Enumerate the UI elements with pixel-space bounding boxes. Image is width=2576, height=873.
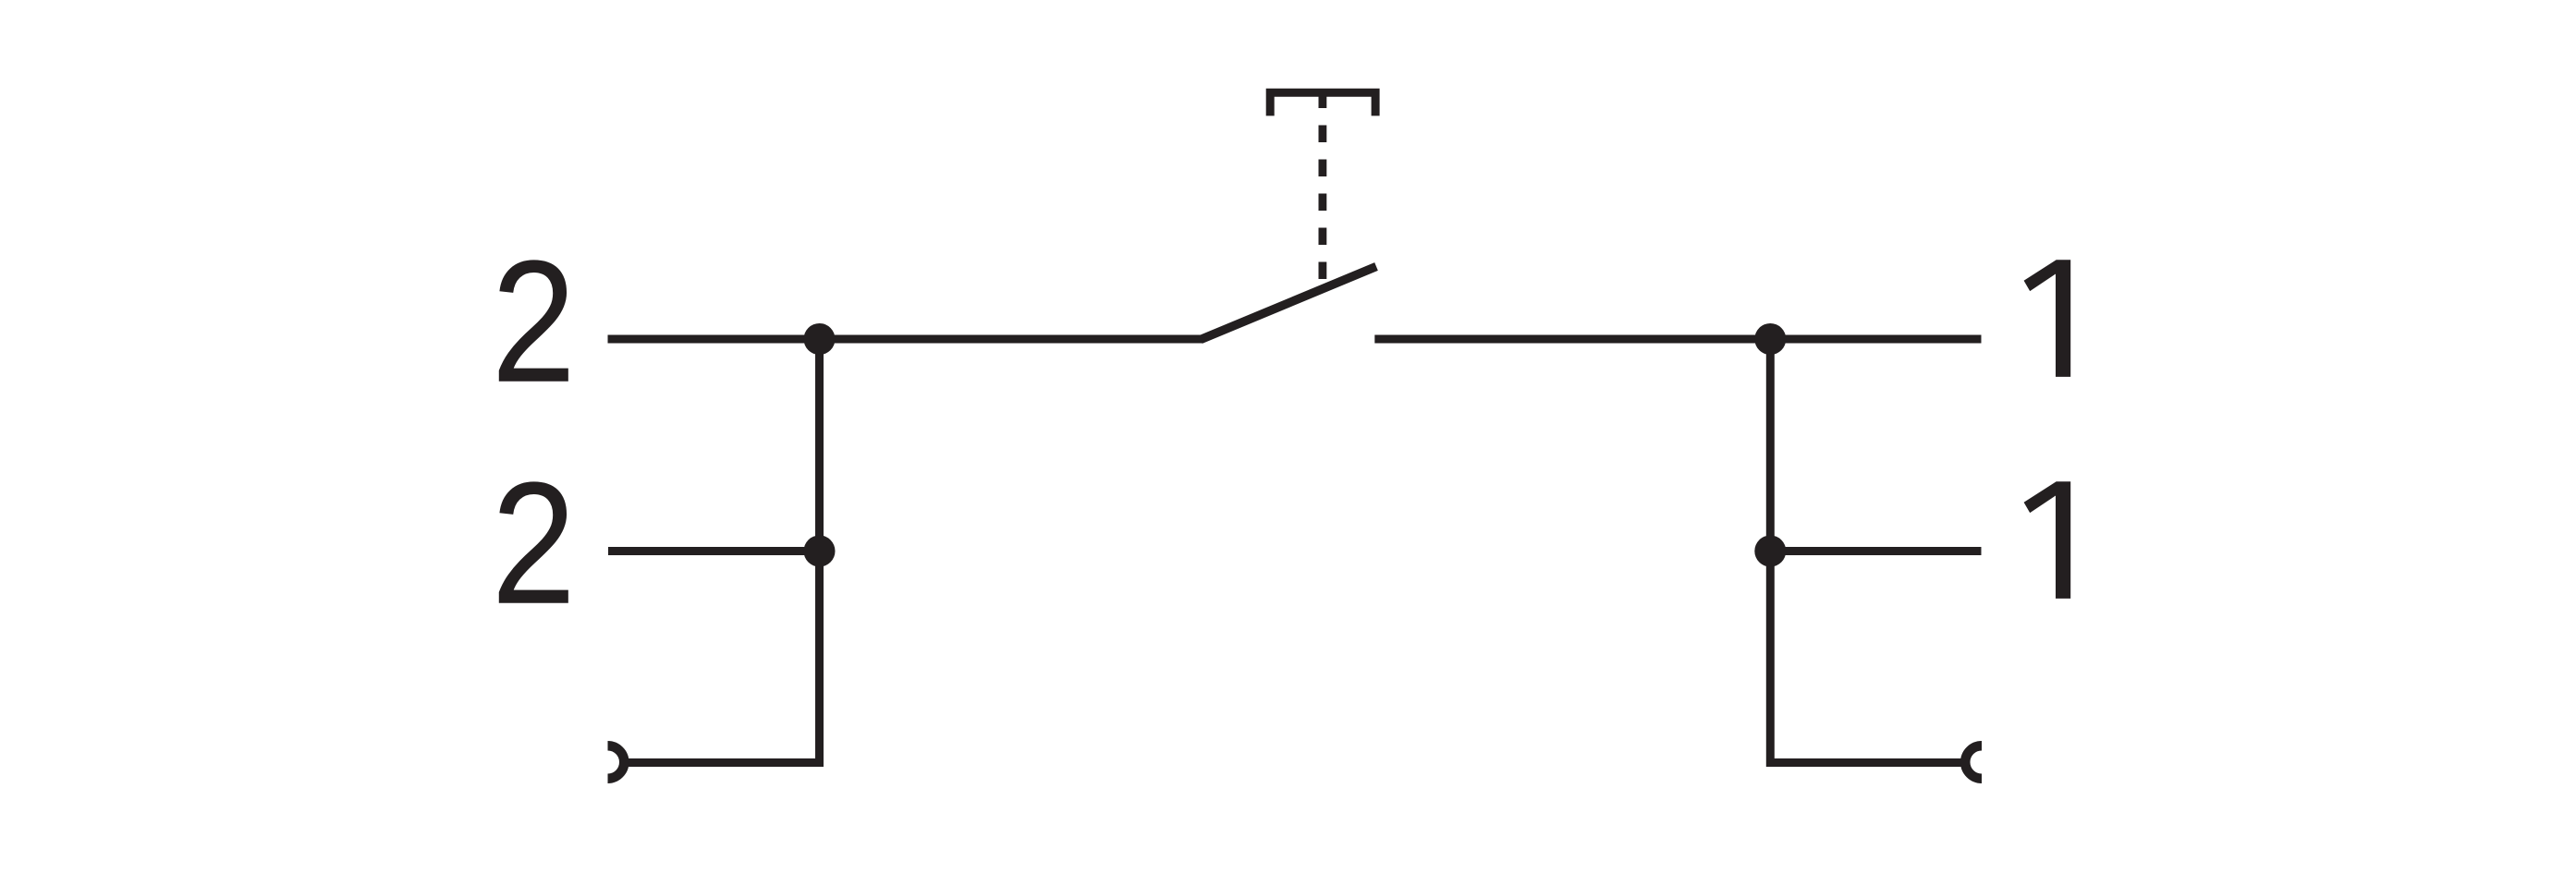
svg-text:2: 2 xyxy=(492,447,577,641)
junction dot: node 2 bottom xyxy=(804,536,836,567)
junction dot: node 1 top xyxy=(1754,323,1786,355)
socket contact right (open half-circle) xyxy=(1965,746,1982,779)
socket contact left (open half-circle) xyxy=(608,746,625,779)
terminal label 1 (bottom) xyxy=(2024,481,2071,599)
terminal label 1 (top) xyxy=(2024,260,2071,377)
wire: right vertical bus with corner to socket xyxy=(1770,339,1965,763)
wire: second terminal 1 stub xyxy=(1770,547,1981,555)
switch blade (NO contact) xyxy=(1201,267,1376,340)
wire: terminal 2 to pivot xyxy=(608,335,1203,344)
junction dot: node 1 bottom xyxy=(1754,536,1786,567)
wire: second terminal 2 stub xyxy=(608,547,820,555)
wire: contact to terminal 1 xyxy=(1374,335,1981,344)
junction dot: node 2 top xyxy=(804,323,836,355)
wire: left vertical bus with corner to socket xyxy=(624,339,820,763)
svg-text:2: 2 xyxy=(492,225,577,419)
actuator linkage (dashed) xyxy=(1319,91,1327,280)
push-button actuator cap S1 xyxy=(1270,92,1375,115)
